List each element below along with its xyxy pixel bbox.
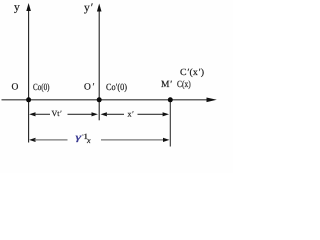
svg-text:M ʹ: M ʹ [161,80,172,90]
svg-text:C ʹ(x ʹ): C ʹ(x ʹ) [180,68,204,78]
svg-text:x ʹ: x ʹ [128,110,135,119]
svg-text:Coʹ(0): Coʹ(0) [106,83,127,93]
svg-text:y ʹ: y ʹ [84,2,93,14]
svg-text:γ: γ [76,133,82,143]
svg-text:O: O [12,83,19,93]
svg-text:Vt ʹ: Vt ʹ [52,109,63,118]
svg-text:C(x): C(x) [177,80,191,90]
svg-text:x: x [86,136,91,145]
svg-text:y: y [14,2,20,14]
svg-text:O ʹ: O ʹ [84,83,95,93]
svg-text:Co(0): Co(0) [33,83,50,93]
